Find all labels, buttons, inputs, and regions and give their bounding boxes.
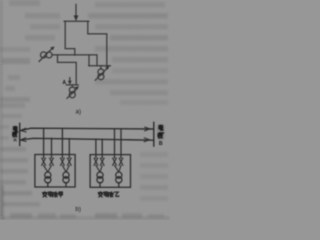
switch S8 bbox=[119, 158, 123, 172]
drop wire upper->box2 s7 bbox=[114, 129, 116, 158]
drop wire lower->box2 s5 bbox=[95, 139, 97, 158]
switch S5 bbox=[94, 158, 100, 172]
substation box 乙 bbox=[90, 155, 130, 188]
transformer TA2 (box 甲) bbox=[63, 172, 69, 187]
transformer T3 (stacked circles with arrow) bbox=[67, 85, 79, 99]
wire: drop to bar2 left bbox=[88, 55, 90, 66]
arrowhead right upper bbox=[145, 127, 150, 131]
arrowhead left upper bbox=[21, 128, 27, 132]
transformer TB1 (box 乙) bbox=[97, 172, 103, 187]
svg-text:A: A bbox=[13, 138, 17, 144]
switch S4 bbox=[66, 158, 71, 172]
svg-text:b): b) bbox=[75, 206, 81, 213]
svg-text:B: B bbox=[159, 141, 163, 147]
transmission line 1 (upper) bbox=[20, 128, 153, 130]
drop wire lower->box2 s6 bbox=[101, 139, 103, 158]
drop wire upper->box1 s1 bbox=[43, 128, 45, 158]
substation box 甲 bbox=[35, 155, 75, 188]
transformer T2 (stacked circles with arrow) bbox=[95, 66, 109, 81]
paper background bbox=[0, 0, 170, 220]
drop wire lower->box1 s4 bbox=[68, 139, 70, 159]
bar3 (junction bar, fig a bottom) bbox=[66, 84, 78, 86]
wire: left leg from top bus bbox=[65, 21, 75, 55]
label 变电所甲 bbox=[42, 192, 62, 197]
wire: A-branch jog bbox=[58, 55, 77, 85]
bleed-through smudges bbox=[0, 0, 170, 220]
busbar source B bbox=[153, 122, 155, 146]
drop wire lower->box1 s2 bbox=[51, 138, 53, 158]
bar2 (junction bar, fig a right) bbox=[89, 65, 111, 67]
top bus (fig a) bbox=[64, 20, 89, 22]
A feed arrow bbox=[68, 78, 72, 85]
drop wire upper->box2 s8 bbox=[120, 129, 122, 158]
arrowhead right lower bbox=[144, 138, 149, 142]
switch S1 bbox=[42, 158, 48, 172]
switch S6 bbox=[100, 158, 104, 172]
switch S2 bbox=[48, 158, 54, 172]
transformer T1 (two overlapping circles with arrow) bbox=[39, 46, 55, 61]
transmission line 2 (lower) bbox=[20, 138, 153, 140]
svg-text:a): a) bbox=[75, 108, 81, 115]
transformer TB2 (box 乙) bbox=[116, 172, 122, 187]
wire: right leg from top bus bbox=[88, 21, 107, 66]
label 变电所乙 bbox=[98, 192, 119, 197]
wire: drop to bar2 second bbox=[96, 55, 98, 66]
feeder arrow (incoming supply, fig a top) bbox=[74, 4, 79, 21]
arrowhead left lower bbox=[21, 138, 27, 142]
wire: transformer T1 feeder bbox=[52, 54, 97, 56]
transformer TA1 (box 甲) bbox=[45, 172, 51, 187]
label 电源A (vertical) bbox=[13, 126, 18, 136]
drop wire upper->box1 s3 bbox=[61, 129, 63, 159]
switch S3 bbox=[61, 158, 67, 172]
label 电源B (vertical) bbox=[158, 125, 164, 138]
switch S7 bbox=[113, 158, 119, 172]
busbar source A bbox=[19, 123, 21, 145]
